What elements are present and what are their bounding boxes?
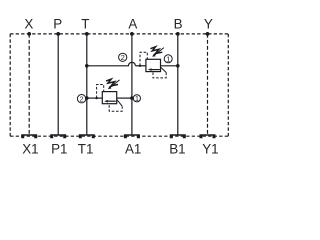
valve 2 spring (adjustable) xyxy=(106,79,118,86)
port A1 flange symbol xyxy=(124,134,140,138)
valve 2 drain/pilot loop xyxy=(117,100,122,107)
port line T xyxy=(86,34,88,135)
port line Y (drain, dashed) xyxy=(207,34,209,135)
callout circle 1 (valve 1) xyxy=(164,55,172,63)
wire hop to valve 1 inlet xyxy=(135,65,146,67)
svg-text:P1: P1 xyxy=(51,142,67,157)
junction dot T / valve 2 wire xyxy=(85,96,89,100)
port line X (pilot, dashed) xyxy=(28,34,30,135)
callout circle 2 (valve 2) xyxy=(77,95,85,103)
svg-text:A1: A1 xyxy=(125,142,141,157)
wire T to valve 2 xyxy=(87,97,103,99)
svg-text:2: 2 xyxy=(80,94,84,103)
svg-text:1: 1 xyxy=(166,55,170,64)
svg-text:X1: X1 xyxy=(22,142,38,157)
valve 2 internal flow path arrow xyxy=(107,100,116,102)
valve 2 pilot tap dot xyxy=(95,97,97,99)
junction dot T top xyxy=(85,32,89,36)
wire valve 2 to A xyxy=(117,97,132,99)
valve 2 pilot line (dashed) xyxy=(97,85,104,99)
manifold boundary dashed frame xyxy=(10,34,228,136)
valve 1 internal flow path arrow xyxy=(150,69,159,71)
valve 2 spring arrow xyxy=(110,80,120,88)
svg-text:X: X xyxy=(24,16,33,31)
valve 1 drain/pilot loop xyxy=(161,67,167,72)
junction dot X top xyxy=(27,32,31,36)
svg-text:2: 2 xyxy=(121,53,125,62)
junction dot B top xyxy=(176,32,180,36)
callout circle 2 (valve 1) xyxy=(119,53,127,61)
junction dot P top xyxy=(56,32,60,36)
port X1 flange symbol xyxy=(21,134,37,138)
svg-text:B1: B1 xyxy=(169,142,185,157)
callout circle 1 (valve 2) xyxy=(133,95,140,102)
port Y1 flange symbol xyxy=(200,134,216,138)
svg-text:T1: T1 xyxy=(78,142,94,157)
port line A xyxy=(131,34,133,135)
port B1 flange symbol xyxy=(170,134,186,138)
wire valve 1 to B xyxy=(161,65,178,67)
svg-text:1: 1 xyxy=(135,94,139,103)
svg-text:Y: Y xyxy=(204,16,213,31)
port line P xyxy=(57,34,59,135)
junction dot valve 2 / line A xyxy=(130,96,134,100)
wire hop over line A xyxy=(128,62,135,66)
junction dot A top xyxy=(130,32,134,36)
svg-text:Y1: Y1 xyxy=(202,142,218,157)
junction dot valve 1 / line B xyxy=(176,64,180,68)
valve 1 spring arrow xyxy=(154,48,164,56)
junction dot T / valve 1 wire xyxy=(85,64,89,68)
junction dot Y top xyxy=(206,32,210,36)
port T1 flange symbol xyxy=(79,134,95,138)
valve 1 body xyxy=(146,59,161,71)
valve 2 body xyxy=(102,92,116,104)
valve 1 pilot line (dashed) xyxy=(140,52,147,66)
svg-text:T: T xyxy=(81,16,89,31)
svg-text:B: B xyxy=(174,16,183,31)
port P1 flange symbol xyxy=(50,134,66,138)
valve 1 pilot tap dot xyxy=(139,65,141,67)
svg-text:P: P xyxy=(53,16,62,31)
valve 1 spring (adjustable) xyxy=(150,47,162,54)
port line B xyxy=(177,34,179,135)
svg-text:A: A xyxy=(128,16,137,31)
wire T to valve 1 xyxy=(87,65,129,67)
